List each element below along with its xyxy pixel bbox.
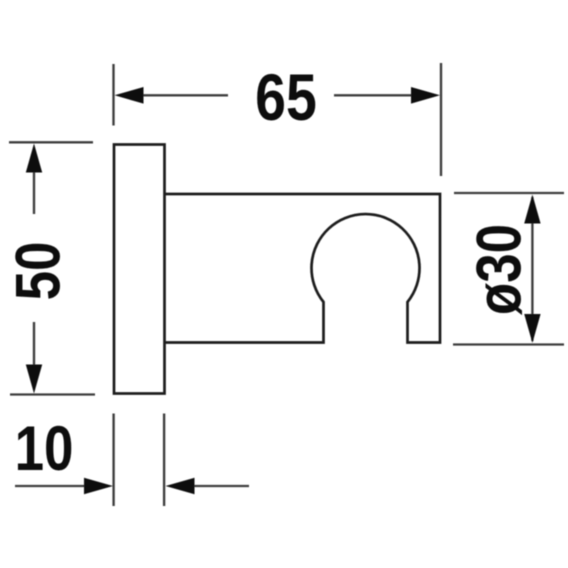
dim ø30: top arrowhead	[524, 195, 540, 224]
dim 10: right arrowhead (pointing left)	[166, 478, 195, 494]
dim 10: left dimension line	[15, 485, 90, 487]
dim 10: left arrowhead (pointing right)	[84, 478, 113, 494]
dim 65: right arrowhead	[411, 87, 440, 104]
dim 65: left dimension line	[130, 94, 228, 96]
svg-text:65: 65	[255, 60, 317, 134]
svg-text:ø30: ø30	[464, 224, 534, 315]
dim 50: top arrowhead	[26, 144, 42, 173]
dim 50: bottom arrowhead	[26, 365, 42, 394]
svg-text:10: 10	[15, 414, 74, 484]
dim 10: left extension line	[112, 414, 114, 507]
dim 65: right dimension line	[334, 94, 426, 96]
dim 10: right extension line	[163, 414, 165, 507]
svg-text:50: 50	[3, 242, 73, 301]
dim 50: bottom extension line	[10, 393, 95, 395]
dim ø30: bottom arrowhead	[524, 314, 540, 343]
dim ø30: bottom extension line	[453, 343, 564, 345]
dim 65: right extension line	[440, 63, 442, 176]
dim 50: top extension line	[9, 141, 93, 143]
dim 10: right dimension line	[190, 485, 249, 487]
dim 65: left extension line	[112, 64, 114, 126]
dim 65: left arrowhead	[115, 87, 144, 104]
dim 50: lower dimension line	[33, 322, 35, 370]
dim ø30: top extension line	[454, 192, 564, 194]
holder arm body with keyhole cutout	[165, 194, 441, 343]
dim 50: upper dimension line	[33, 168, 35, 214]
dim ø30: dimension line	[531, 197, 533, 341]
wall plate body	[114, 145, 165, 394]
